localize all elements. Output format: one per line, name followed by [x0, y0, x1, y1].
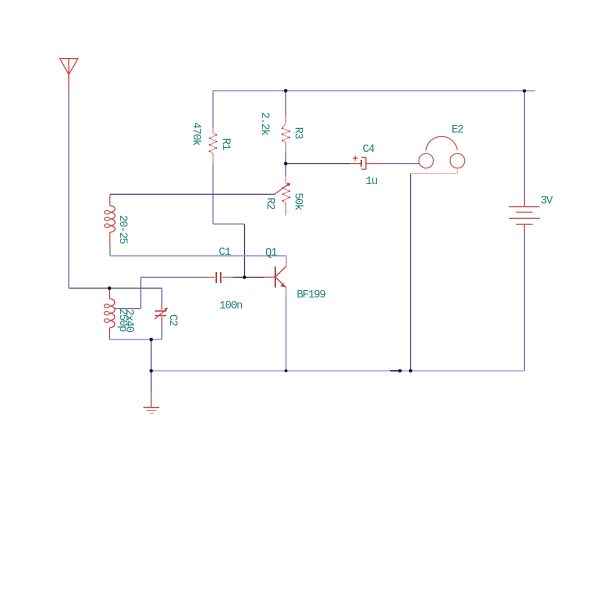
svg-text:Q1: Q1	[265, 248, 278, 260]
svg-text:20-25: 20-25	[116, 215, 128, 244]
svg-text:BF199: BF199	[297, 289, 326, 301]
svg-text:100n: 100n	[219, 300, 242, 312]
svg-text:R2: R2	[263, 198, 275, 210]
svg-text:E2: E2	[452, 124, 464, 136]
svg-text:3V: 3V	[541, 196, 554, 208]
svg-text:R3: R3	[292, 127, 304, 139]
svg-text:50k: 50k	[292, 193, 304, 211]
svg-text:1u: 1u	[366, 176, 378, 188]
svg-text:C2: C2	[166, 314, 178, 326]
svg-text:2.2k: 2.2k	[258, 112, 270, 136]
svg-text:C4: C4	[363, 144, 376, 156]
svg-text:R1: R1	[219, 138, 231, 151]
svg-text:470k: 470k	[190, 122, 202, 146]
svg-text:2x40: 2x40	[122, 309, 134, 332]
svg-text:C1: C1	[219, 247, 232, 259]
